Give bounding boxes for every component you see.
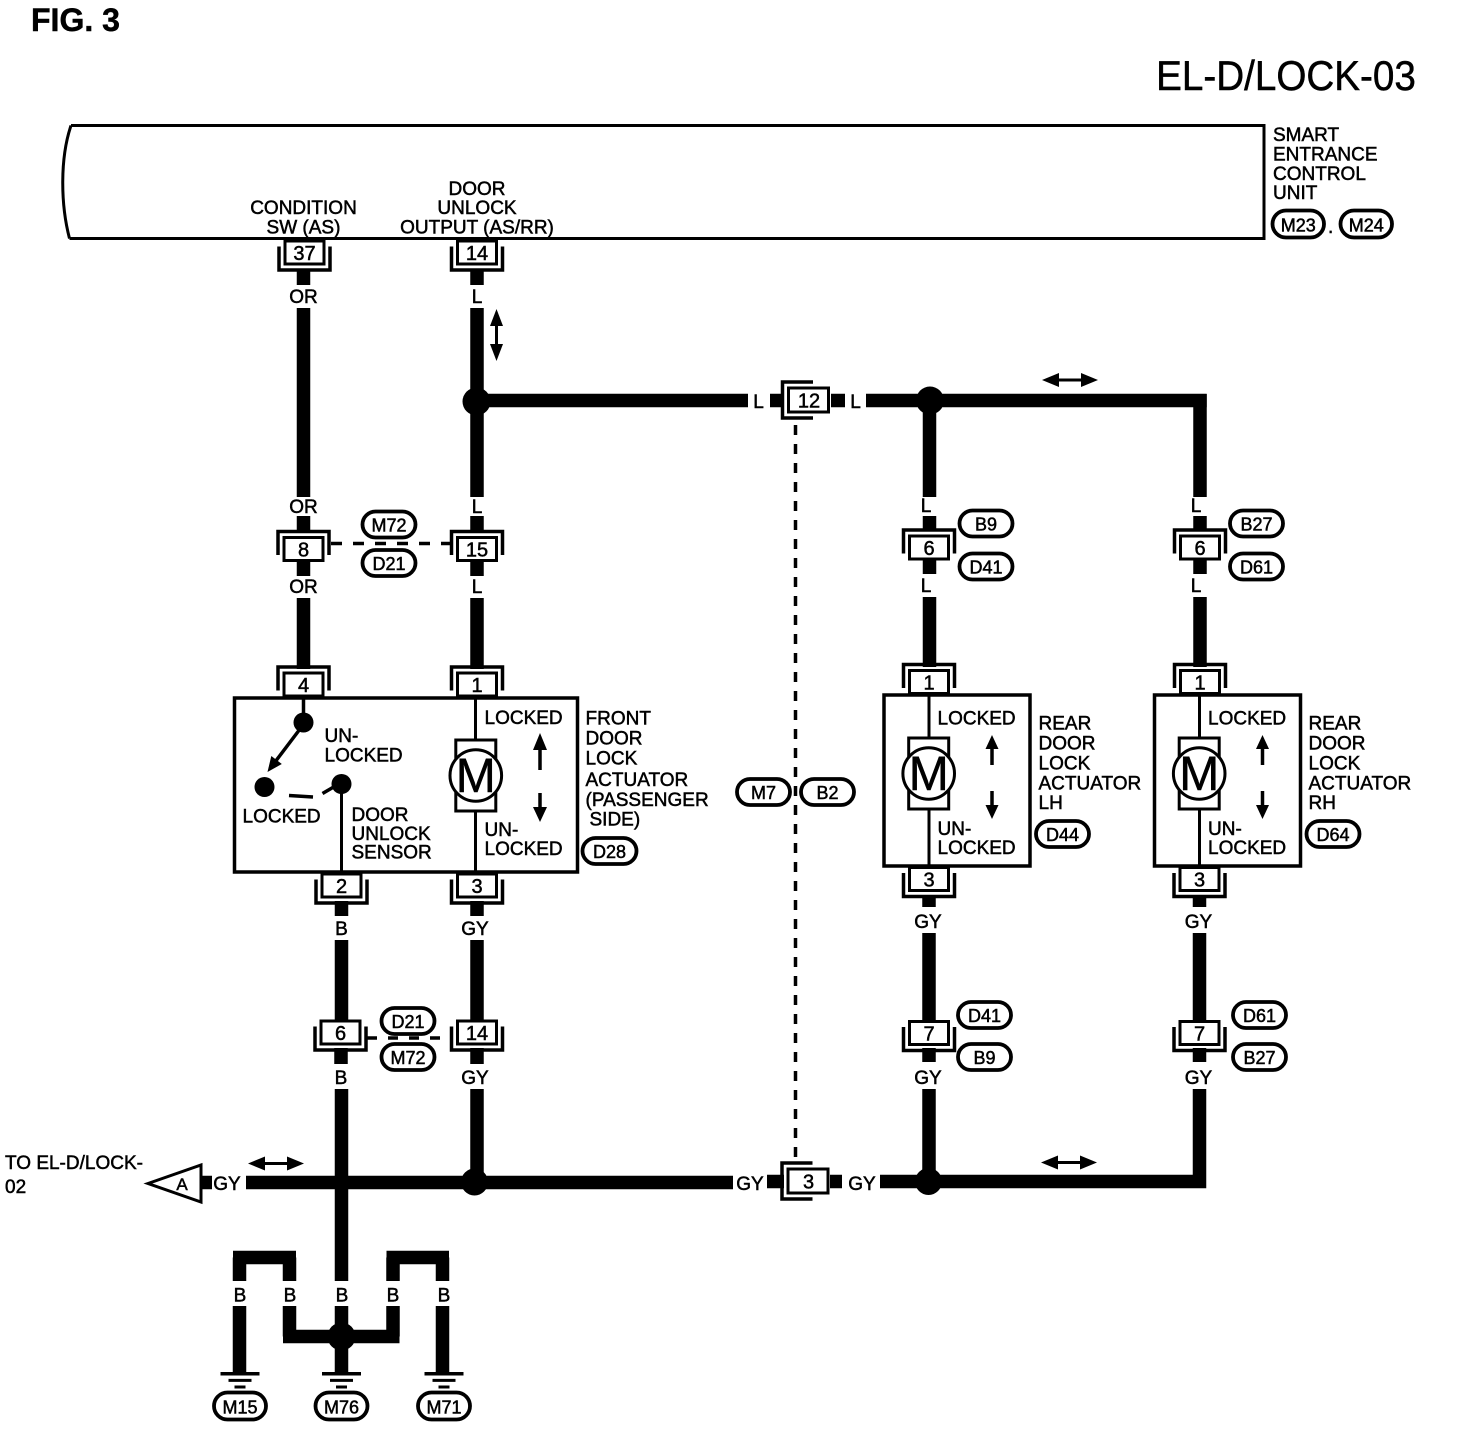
door unlock sensor switch bbox=[255, 698, 352, 872]
wire L bbox=[470, 516, 484, 531]
ground ref M15 bbox=[214, 1393, 266, 1420]
wire GY stub from arrow bbox=[201, 1176, 212, 1190]
connector ref D28 bbox=[583, 838, 637, 864]
wire L down rear LH bbox=[923, 400, 937, 497]
pin 1 of rear door lock actuator RH bbox=[1175, 665, 1226, 695]
junction node on L wire bbox=[463, 388, 491, 416]
svg-text:14: 14 bbox=[466, 1023, 488, 1045]
pin 4 of front door lock actuator bbox=[278, 667, 329, 697]
svg-text:GY: GY bbox=[914, 1068, 942, 1089]
svg-text:ENTRANCE: ENTRANCE bbox=[1273, 145, 1378, 166]
rear door lock actuator RH box bbox=[1155, 695, 1301, 866]
ground ref M76 bbox=[316, 1393, 368, 1420]
svg-text:1: 1 bbox=[471, 675, 482, 697]
connector ref B27 bbox=[1233, 1044, 1286, 1070]
svg-text:UN-: UN- bbox=[938, 819, 972, 840]
svg-text:GY: GY bbox=[1185, 1068, 1213, 1089]
wire L bbox=[923, 516, 937, 531]
svg-text:L: L bbox=[472, 497, 483, 518]
wire GY from pin 3 LH bbox=[922, 895, 936, 907]
ground ref M71 bbox=[418, 1393, 470, 1420]
wire OR bbox=[297, 308, 311, 497]
svg-text:REAR: REAR bbox=[1309, 714, 1362, 735]
svg-text:B: B bbox=[335, 919, 348, 940]
connector ref M7 bbox=[737, 779, 790, 805]
svg-text:3: 3 bbox=[803, 1172, 814, 1194]
svg-text:D61: D61 bbox=[1243, 1006, 1276, 1026]
connector ref B27 bbox=[1230, 511, 1283, 537]
wire GY bbox=[470, 940, 484, 1020]
wire GY from pin 3 bbox=[470, 901, 484, 916]
svg-text:B: B bbox=[336, 1286, 349, 1307]
connector 8 (M72/D21) bbox=[278, 532, 329, 562]
motor M rear LH bbox=[903, 738, 955, 809]
svg-text:B: B bbox=[387, 1286, 400, 1307]
connector ref D64 bbox=[1307, 821, 1360, 847]
dashed link connector 8 to 15 bbox=[331, 542, 450, 546]
junction node GY bbox=[461, 1169, 488, 1196]
svg-text:6: 6 bbox=[923, 538, 934, 560]
svg-text:LOCK: LOCK bbox=[1309, 754, 1361, 775]
svg-text:B9: B9 bbox=[975, 515, 997, 535]
svg-text:B: B bbox=[284, 1286, 297, 1307]
connector ref D21 bbox=[382, 1008, 435, 1034]
rear door lock actuator LH box bbox=[884, 695, 1030, 866]
svg-text:OR: OR bbox=[289, 577, 318, 598]
wire L bbox=[470, 562, 484, 576]
wire L stub bbox=[770, 394, 784, 408]
svg-text:CONTROL: CONTROL bbox=[1273, 164, 1366, 185]
wire B right ground loop bbox=[342, 1258, 450, 1373]
svg-text:LOCK: LOCK bbox=[1039, 754, 1091, 775]
svg-text:SW (AS): SW (AS) bbox=[267, 218, 341, 239]
svg-text:SENSOR: SENSOR bbox=[352, 843, 432, 864]
connector ref M24 bbox=[1341, 211, 1393, 238]
svg-text:B9: B9 bbox=[973, 1048, 995, 1068]
pin label CONDITION SW (AS) bbox=[250, 198, 357, 239]
wire OR from pin 37 bbox=[297, 269, 311, 285]
wire GY to rear junction bbox=[880, 1175, 929, 1189]
wire L bbox=[470, 308, 484, 396]
connector ref M72 bbox=[363, 512, 416, 538]
svg-text:DOOR: DOOR bbox=[586, 729, 643, 750]
svg-text:ACTUATOR: ACTUATOR bbox=[586, 770, 689, 791]
arrow down (unlock direction) bbox=[533, 793, 547, 822]
dashed link connector 6 to 14 bbox=[367, 1036, 450, 1040]
pin 37 of unit bbox=[279, 241, 330, 270]
svg-text:EL-D/LOCK-03: EL-D/LOCK-03 bbox=[1156, 51, 1416, 99]
svg-text:OUTPUT (AS/RR): OUTPUT (AS/RR) bbox=[400, 218, 554, 239]
svg-text:M24: M24 bbox=[1349, 216, 1384, 236]
connector ref D44 bbox=[1036, 821, 1089, 847]
wire GY from pin 3 RH bbox=[1193, 895, 1207, 907]
bidirectional arrow (vertical) bbox=[490, 309, 503, 361]
smart entrance control unit U1 box bbox=[63, 126, 1264, 239]
wire GY bbox=[922, 933, 936, 1020]
wire L bbox=[470, 598, 484, 669]
motor M rear RH bbox=[1173, 738, 1225, 809]
wire L bbox=[923, 560, 937, 574]
wire B bbox=[335, 940, 349, 1020]
connector ref D21 bbox=[363, 550, 416, 576]
svg-text:8: 8 bbox=[298, 540, 309, 562]
wire B bbox=[334, 1048, 348, 1064]
ground symbol M71 bbox=[425, 1374, 464, 1387]
svg-text:M72: M72 bbox=[371, 516, 406, 536]
svg-text:GY: GY bbox=[1185, 912, 1213, 933]
svg-text:OR: OR bbox=[289, 287, 318, 308]
svg-text:GY: GY bbox=[213, 1174, 241, 1195]
divider line bbox=[1198, 695, 1201, 866]
svg-text:M: M bbox=[909, 748, 949, 801]
svg-text:3: 3 bbox=[1194, 870, 1205, 892]
svg-text:B: B bbox=[335, 1068, 348, 1089]
pin 3 of rear door lock actuator RH bbox=[1174, 868, 1225, 897]
arrow up (lock direction) bbox=[533, 733, 547, 770]
wire L bbox=[923, 597, 937, 667]
svg-text:M76: M76 bbox=[324, 1398, 359, 1418]
svg-text:L: L bbox=[472, 287, 483, 308]
label FRONT DOOR LOCK ACTUATOR (PASSENGER SIDE) bbox=[586, 709, 709, 831]
svg-text:7: 7 bbox=[1194, 1024, 1205, 1046]
connector ref B9 bbox=[960, 511, 1013, 537]
wire L stub bbox=[831, 394, 845, 408]
svg-text:D64: D64 bbox=[1316, 825, 1349, 845]
svg-text:SMART: SMART bbox=[1273, 125, 1340, 146]
wire GY bbox=[922, 1048, 936, 1062]
svg-text:GY: GY bbox=[848, 1174, 876, 1195]
wire L bbox=[1193, 560, 1207, 574]
svg-text:ACTUATOR: ACTUATOR bbox=[1039, 774, 1142, 795]
connector ref D61 bbox=[1230, 554, 1283, 580]
svg-text:GY: GY bbox=[461, 1068, 489, 1089]
svg-text:D28: D28 bbox=[593, 842, 626, 862]
wire GY corner to junction bbox=[929, 1089, 1200, 1182]
connector 15 (M72/D21) bbox=[452, 532, 503, 562]
wire B left ground loop bbox=[233, 1258, 342, 1373]
svg-text:14: 14 bbox=[466, 243, 488, 265]
svg-text:02: 02 bbox=[5, 1177, 26, 1198]
svg-text:L: L bbox=[921, 496, 932, 517]
svg-text:LOCKED: LOCKED bbox=[1208, 838, 1286, 859]
svg-text:UN-: UN- bbox=[1208, 819, 1242, 840]
svg-text:6: 6 bbox=[1194, 538, 1205, 560]
wire GY bbox=[1193, 933, 1207, 1020]
svg-text:RH: RH bbox=[1309, 793, 1336, 814]
svg-text:D44: D44 bbox=[1046, 825, 1079, 845]
wire GY bbox=[470, 1048, 484, 1064]
connector 12 (M7/B2) bbox=[783, 382, 829, 418]
junction node at rear LH branch bbox=[916, 387, 944, 415]
wire B from pin 2 bbox=[335, 901, 349, 916]
svg-text:LOCKED: LOCKED bbox=[1208, 709, 1286, 730]
connector 7 (D61/B27) bbox=[1174, 1022, 1225, 1051]
svg-text:L: L bbox=[753, 392, 764, 413]
svg-text:LOCKED: LOCKED bbox=[938, 709, 1016, 730]
wire L bbox=[1193, 516, 1207, 531]
svg-text:FRONT: FRONT bbox=[586, 709, 652, 730]
svg-text:4: 4 bbox=[298, 675, 309, 697]
svg-text:LOCKED: LOCKED bbox=[325, 746, 403, 767]
connector ref M72 bbox=[382, 1044, 435, 1070]
bidirectional arrow (horizontal) bbox=[248, 1157, 304, 1171]
bidirectional arrow (horizontal) bbox=[1042, 373, 1098, 387]
svg-text:DOOR: DOOR bbox=[449, 179, 506, 200]
wire L bbox=[1193, 597, 1207, 667]
svg-text:LH: LH bbox=[1039, 793, 1063, 814]
ground junction node bbox=[328, 1323, 356, 1351]
svg-text:D21: D21 bbox=[372, 554, 405, 574]
svg-text:TO EL-D/LOCK-: TO EL-D/LOCK- bbox=[5, 1153, 143, 1174]
switch position label UN-LOCKED bbox=[325, 726, 403, 767]
pin 2 of front door lock actuator bbox=[316, 874, 367, 903]
svg-text:CONDITION: CONDITION bbox=[250, 198, 357, 219]
wire GY stub bbox=[767, 1175, 784, 1189]
svg-text:B: B bbox=[234, 1286, 247, 1307]
svg-text:A: A bbox=[176, 1175, 188, 1194]
connector 6 (D21/M72) bbox=[315, 1021, 366, 1050]
svg-text:L: L bbox=[921, 576, 932, 597]
pin 1 of rear door lock actuator LH bbox=[904, 665, 955, 695]
svg-text:3: 3 bbox=[923, 870, 934, 892]
svg-text:DOOR: DOOR bbox=[1039, 734, 1096, 755]
front door lock actuator (passenger side) box bbox=[235, 698, 578, 872]
connector 7 (D41/B9) bbox=[904, 1022, 955, 1051]
svg-text:B: B bbox=[438, 1286, 451, 1307]
arrow up (lock direction) bbox=[986, 735, 999, 765]
svg-text:M: M bbox=[1179, 748, 1219, 801]
connector ref D41 bbox=[960, 554, 1013, 580]
pin label DOOR UNLOCK OUTPUT (AS/RR) bbox=[400, 179, 554, 239]
wire L bbox=[470, 401, 484, 497]
svg-text:GY: GY bbox=[461, 919, 489, 940]
wire GY horizontal run bbox=[246, 1176, 733, 1190]
svg-text:LOCK: LOCK bbox=[586, 749, 638, 770]
svg-text:M71: M71 bbox=[426, 1398, 461, 1418]
bidirectional arrow (horizontal) bbox=[1041, 1156, 1097, 1170]
svg-text:L: L bbox=[1191, 496, 1202, 517]
svg-text:M72: M72 bbox=[390, 1048, 425, 1068]
wire color label B (x4) bbox=[234, 1286, 451, 1307]
connector 6 (B9/D41) bbox=[904, 530, 955, 560]
svg-text:D41: D41 bbox=[968, 1006, 1001, 1026]
connector 3 (M7/B2) bbox=[782, 1163, 828, 1199]
wire GY to junction bbox=[922, 1089, 936, 1182]
ground symbol M76 bbox=[322, 1374, 361, 1387]
connector 6 (B27/D61) bbox=[1175, 530, 1226, 560]
connector ref D61 bbox=[1233, 1002, 1286, 1028]
wire GY stub bbox=[830, 1175, 842, 1189]
wire B crossing GY run bbox=[335, 1089, 349, 1281]
svg-text:B2: B2 bbox=[816, 783, 838, 803]
motor direction label UN-LOCKED bbox=[938, 819, 1016, 859]
wire L down rear RH bbox=[1193, 394, 1207, 497]
svg-text:1: 1 bbox=[923, 673, 934, 695]
divider line bbox=[928, 695, 931, 866]
svg-text:15: 15 bbox=[466, 540, 488, 562]
svg-text:DOOR: DOOR bbox=[1309, 734, 1366, 755]
svg-text:L: L bbox=[1191, 576, 1202, 597]
wire L to rear branches bbox=[866, 394, 1207, 408]
svg-text:B27: B27 bbox=[1243, 1048, 1275, 1068]
wire OR bbox=[297, 598, 311, 669]
connector ref D41 bbox=[958, 1002, 1011, 1028]
svg-text:7: 7 bbox=[923, 1024, 934, 1046]
svg-text:GY: GY bbox=[914, 912, 942, 933]
svg-text:UNIT: UNIT bbox=[1273, 183, 1318, 204]
ground symbol M15 bbox=[221, 1374, 260, 1387]
svg-text:LOCKED: LOCKED bbox=[243, 807, 321, 828]
arrow down (unlock direction) bbox=[986, 791, 999, 819]
wire GY bbox=[1193, 1048, 1207, 1062]
svg-text:REAR: REAR bbox=[1039, 714, 1092, 735]
junction node rear GY bbox=[915, 1168, 942, 1195]
svg-text:M23: M23 bbox=[1281, 216, 1316, 236]
svg-text:LOCKED: LOCKED bbox=[485, 839, 563, 860]
off-page arrow A bbox=[148, 1165, 201, 1202]
label REAR DOOR LOCK ACTUATOR LH bbox=[1039, 714, 1142, 815]
label DOOR UNLOCK SENSOR bbox=[352, 805, 432, 864]
label TO EL-D/LOCK-02 bbox=[5, 1153, 143, 1198]
svg-text:1: 1 bbox=[1194, 673, 1205, 695]
svg-text:M7: M7 bbox=[751, 783, 776, 803]
svg-text:FIG. 3: FIG. 3 bbox=[31, 2, 120, 38]
svg-text:SIDE): SIDE) bbox=[590, 810, 641, 831]
wire OR bbox=[297, 516, 311, 531]
svg-text:M15: M15 bbox=[222, 1398, 257, 1418]
svg-text:UN-: UN- bbox=[325, 726, 359, 747]
svg-text:DOOR: DOOR bbox=[352, 805, 409, 826]
svg-text:LOCKED: LOCKED bbox=[485, 708, 563, 729]
svg-text:.: . bbox=[1328, 217, 1333, 238]
label REAR DOOR LOCK ACTUATOR RH bbox=[1309, 714, 1412, 815]
wire GY to bottom run bbox=[470, 1089, 484, 1182]
svg-text:2: 2 bbox=[336, 876, 347, 898]
pin 3 of rear door lock actuator LH bbox=[904, 868, 955, 897]
divider line bbox=[474, 698, 477, 872]
svg-text:UN-: UN- bbox=[485, 820, 519, 841]
svg-text:ACTUATOR: ACTUATOR bbox=[1309, 774, 1412, 795]
svg-text:L: L bbox=[850, 392, 861, 413]
svg-text:M: M bbox=[456, 750, 496, 803]
wire L from pin 14 bbox=[470, 269, 484, 285]
svg-text:LOCKED: LOCKED bbox=[938, 838, 1016, 859]
connector ref M23 bbox=[1273, 211, 1325, 238]
svg-text:(PASSENGER: (PASSENGER bbox=[586, 790, 709, 811]
svg-text:D21: D21 bbox=[391, 1012, 424, 1032]
svg-text:D41: D41 bbox=[969, 558, 1002, 578]
pin 14 of unit bbox=[452, 241, 503, 270]
dashed harness boundary M7/B2 bbox=[794, 425, 798, 1160]
wire OR bbox=[297, 562, 311, 576]
connector ref B2 bbox=[801, 779, 854, 805]
arrow down (unlock direction) bbox=[1256, 791, 1269, 819]
wire L horizontal to connector 12 bbox=[470, 394, 748, 408]
svg-text:OR: OR bbox=[289, 497, 318, 518]
svg-text:12: 12 bbox=[798, 391, 820, 413]
pin 1 of front door lock actuator bbox=[452, 667, 503, 697]
svg-text:GY: GY bbox=[736, 1174, 764, 1195]
arrow up (lock direction) bbox=[1256, 735, 1269, 765]
motor M front actuator bbox=[450, 740, 502, 811]
svg-text:37: 37 bbox=[293, 243, 315, 265]
svg-text:B27: B27 bbox=[1240, 515, 1272, 535]
motor direction label UN-LOCKED bbox=[1208, 819, 1286, 859]
svg-text:D61: D61 bbox=[1240, 558, 1273, 578]
connector 14 (D21/M72) bbox=[452, 1021, 503, 1050]
pin 3 of front door lock actuator bbox=[452, 874, 503, 903]
motor direction label UN-LOCKED bbox=[485, 820, 563, 860]
label SMART ENTRANCE CONTROL UNIT bbox=[1273, 125, 1378, 204]
wire B into ground junction bbox=[335, 1306, 349, 1372]
svg-text:UNLOCK: UNLOCK bbox=[437, 198, 517, 219]
svg-text:6: 6 bbox=[335, 1023, 346, 1045]
svg-text:L: L bbox=[472, 577, 483, 598]
svg-text:3: 3 bbox=[471, 876, 482, 898]
connector ref B9 bbox=[958, 1044, 1011, 1070]
